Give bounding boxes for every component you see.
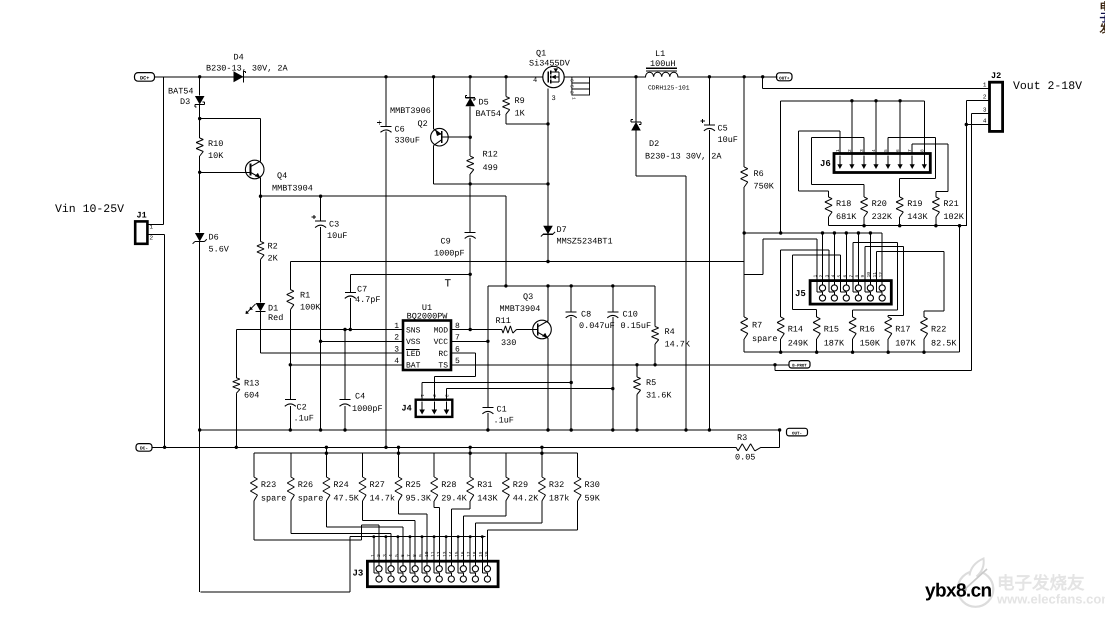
svg-text:3: 3 <box>394 346 399 355</box>
node C3-GND junction <box>319 428 322 431</box>
wire R7 to bottom bus <box>743 339 745 352</box>
node rail junction R6 <box>743 75 746 78</box>
node Q3col-VCC junction <box>546 284 549 287</box>
svg-text:CDRH125-101: CDRH125-101 <box>648 85 690 92</box>
resistor R4 14.7K <box>652 327 691 350</box>
svg-text:J2: J2 <box>991 71 1001 81</box>
wire J6 pin4 drop <box>875 101 877 156</box>
wire J6 pin6 drop <box>899 101 901 156</box>
capacitor C1 .1uF <box>482 405 514 426</box>
wire R5 to GND <box>636 395 638 431</box>
svg-text:C5: C5 <box>718 124 728 134</box>
node BUSA junction 870.4 <box>869 231 872 234</box>
wire rail to Q2 emitter <box>433 77 435 129</box>
node J6 bus junction 6 <box>898 99 901 102</box>
svg-text:17: 17 <box>466 551 472 557</box>
wire D5 to R12 <box>469 106 471 156</box>
svg-text:3: 3 <box>382 554 388 557</box>
wire J6 even pins bus <box>781 100 925 102</box>
node R6col-BUSA junction <box>743 231 746 234</box>
wire C1 column <box>487 286 489 408</box>
resistor R9 <box>503 77 526 119</box>
svg-text:R17: R17 <box>895 325 910 335</box>
svg-text:J6: J6 <box>820 159 831 169</box>
svg-text:143K: 143K <box>907 212 928 222</box>
svg-text:12: 12 <box>878 272 884 278</box>
node D2col-GND junction <box>684 428 687 431</box>
svg-text:1000pF: 1000pF <box>434 249 465 259</box>
svg-text:1K: 1K <box>515 109 526 119</box>
wire SNS to R13 <box>236 330 403 378</box>
svg-text:7: 7 <box>406 554 412 557</box>
svg-text:MOD: MOD <box>434 327 449 336</box>
resistor R21 102K <box>932 197 964 226</box>
wire Q3 emitter <box>547 338 549 430</box>
node J6 bus junction 2 <box>850 99 853 102</box>
wire J6 pin3 route <box>811 137 864 197</box>
svg-text:Q4: Q4 <box>277 171 287 181</box>
svg-text:R4: R4 <box>665 327 675 337</box>
wire J3 odd pin 15 route <box>463 501 505 561</box>
svg-text:Q1: Q1 <box>536 49 546 59</box>
node Q2 base junction <box>469 136 472 139</box>
node bottom bus junction 852.6 <box>851 351 854 354</box>
node bottom bus junction 780.7 <box>779 351 782 354</box>
svg-text:C9: C9 <box>441 237 451 247</box>
wire VIN/VOUT top rail <box>155 76 778 78</box>
svg-text:R30: R30 <box>585 480 600 490</box>
svg-text:3: 3 <box>825 275 831 278</box>
transistor Q1 Si3455DV <box>529 49 571 104</box>
svg-text:J3: J3 <box>353 569 364 579</box>
svg-text:R18: R18 <box>836 199 851 209</box>
node C6-DC- junction <box>384 446 387 449</box>
wire rail to D5 <box>469 77 471 98</box>
node VCCline junction 506 <box>504 284 507 287</box>
wire C2 to GND <box>289 406 291 430</box>
resistor R17 107K <box>885 317 917 352</box>
node bottom bus junction 924.0 <box>922 351 925 354</box>
node C4-SNS junction <box>343 328 346 331</box>
node BUSA junction 846.3 <box>845 231 848 234</box>
svg-text:spare: spare <box>752 334 778 344</box>
svg-text:3: 3 <box>552 95 556 103</box>
node VCC pin7 junction <box>486 340 489 343</box>
svg-text:D4: D4 <box>234 53 244 63</box>
wire MOD feed line to C7 <box>350 273 470 275</box>
svg-text:C3: C3 <box>329 220 339 230</box>
svg-text:107K: 107K <box>895 339 916 349</box>
svg-text:11: 11 <box>430 551 436 557</box>
svg-text:1: 1 <box>419 394 424 397</box>
svg-text:D1: D1 <box>268 304 278 314</box>
LED D1 Red <box>246 303 284 323</box>
resistor R5 31.6K <box>633 365 672 401</box>
wire J6 pin2 drop <box>851 101 853 156</box>
svg-text:C2: C2 <box>297 403 307 413</box>
svg-text:9: 9 <box>418 554 424 557</box>
svg-text:R25: R25 <box>406 480 421 490</box>
svg-text:3: 3 <box>443 394 449 397</box>
svg-text:R7: R7 <box>752 321 762 331</box>
node Q2col-Q1gate junction <box>546 182 549 185</box>
wire J1 pin1 to rail <box>147 77 163 225</box>
svg-text:100uH: 100uH <box>650 59 676 69</box>
svg-text:82.5K: 82.5K <box>931 339 957 349</box>
wire J5 top pin 882.2 <box>881 233 883 281</box>
node C10-VCC junction <box>611 284 614 287</box>
svg-text:Vout 2-18V: Vout 2-18V <box>1013 80 1082 93</box>
svg-text:OUT-: OUT- <box>792 431 802 436</box>
svg-text:47.5K: 47.5K <box>333 494 359 504</box>
wire DC- line <box>152 446 780 448</box>
transistor Q4 MMBT3904 <box>245 160 312 193</box>
wire R12 down through C9 to MOD <box>469 174 471 330</box>
flag DC+ input <box>135 73 155 82</box>
node C2-GND junction <box>289 428 292 431</box>
wire Q1 pin3 column <box>547 89 549 262</box>
svg-text:2: 2 <box>150 235 154 242</box>
svg-text:R16: R16 <box>860 325 875 335</box>
diode D3 BAT54 <box>168 87 205 108</box>
resistor R31 143K <box>467 446 499 504</box>
resistor R2 <box>257 196 279 263</box>
label Vout 2-18V <box>1013 80 1082 93</box>
J5 pin circles <box>817 281 885 302</box>
wire J3 odd pin 19 route <box>487 501 577 561</box>
svg-text:R22: R22 <box>931 325 946 335</box>
wire J2 pin2 <box>966 94 989 226</box>
diode D2 B230-13 <box>631 120 722 162</box>
svg-text:20: 20 <box>484 551 490 557</box>
svg-text:1: 1 <box>571 97 576 100</box>
svg-text:11: 11 <box>872 272 878 278</box>
svg-text:R27: R27 <box>370 480 385 490</box>
resistor R18 681K <box>825 197 857 226</box>
node rail junction C6 <box>384 75 387 78</box>
node R4-TS junction <box>653 363 656 366</box>
node rail junction J2tap <box>761 75 764 78</box>
node C4-GND junction <box>343 428 346 431</box>
wire J5 bc2 route <box>781 250 829 317</box>
wire VCC2 line left corner to R1 <box>289 262 291 290</box>
wire J3 odd pin 3 route <box>291 501 391 561</box>
wire J5 top pin 858.4 <box>857 233 859 281</box>
svg-text:4.7pF: 4.7pF <box>355 295 381 305</box>
resistor R6 750K <box>741 167 775 192</box>
svg-text:10: 10 <box>866 272 872 278</box>
svg-text:R13: R13 <box>244 379 259 389</box>
connector J2 <box>990 71 1003 131</box>
svg-text:J4: J4 <box>402 404 412 414</box>
wire J6 bus to BUSA <box>780 101 782 233</box>
wire bc1 tap line <box>744 273 763 275</box>
svg-text:0.05: 0.05 <box>735 453 755 463</box>
svg-text:1: 1 <box>813 275 819 278</box>
wire VCC to R4 <box>654 286 656 327</box>
wire J6 pin1 route <box>798 131 840 197</box>
capacitor C6 330uF <box>377 77 420 146</box>
svg-text:Red: Red <box>268 313 283 323</box>
svg-text:R12: R12 <box>483 150 498 160</box>
wire D3 node to Q4 collector <box>200 119 261 162</box>
svg-text:C8: C8 <box>581 310 591 320</box>
capacitor C10 0.15uF <box>607 286 651 331</box>
svg-text:MMSZ5234BT1: MMSZ5234BT1 <box>557 237 613 247</box>
wire to Q4 base <box>200 171 251 173</box>
wire J6 pin5 route <box>888 137 936 197</box>
svg-text:R24: R24 <box>333 480 348 490</box>
inductor L1 <box>646 49 690 92</box>
resistor R28 29.4K <box>431 453 468 503</box>
svg-text:R2: R2 <box>268 242 278 252</box>
svg-text:J1: J1 <box>137 211 147 221</box>
wire C5 to GND <box>708 130 710 430</box>
svg-text:19: 19 <box>478 551 484 557</box>
node C5-GND junction <box>708 428 711 431</box>
svg-text:R32: R32 <box>549 480 564 490</box>
svg-text:B230-13, 30V, 2A: B230-13, 30V, 2A <box>206 64 289 74</box>
wire J3 resistor line2 <box>254 452 577 454</box>
svg-text:D6: D6 <box>209 233 219 243</box>
node bus-959 junction <box>958 224 961 227</box>
svg-text:2: 2 <box>983 94 987 101</box>
wire VCC pin7 line <box>451 340 488 342</box>
connector J3 <box>353 561 499 587</box>
svg-text:SNS: SNS <box>406 327 421 336</box>
node R5-GND junction <box>635 428 638 431</box>
op-amp U1 BQ2000PW <box>394 303 460 371</box>
svg-text:R20: R20 <box>872 199 887 209</box>
capacitor C4 1000pF <box>340 330 383 415</box>
wire R13 to DC- line <box>235 393 237 447</box>
svg-text:R31: R31 <box>477 480 492 490</box>
wire J3 odd pin 9 route <box>399 501 428 561</box>
svg-text:D2: D2 <box>649 139 659 149</box>
wire BUS_A <box>744 232 882 234</box>
node rail junction R9 <box>504 75 507 78</box>
diode D5 BAT54 <box>465 96 501 120</box>
svg-text:604: 604 <box>244 391 259 401</box>
wire J3 odd pin 11 route <box>434 501 439 561</box>
svg-text:BAT54: BAT54 <box>476 109 502 119</box>
node BUSA junction 822.5 <box>821 231 824 234</box>
svg-text:150K: 150K <box>860 339 881 349</box>
resistor R24 47.5K <box>323 446 360 504</box>
wire GND bus <box>200 429 779 431</box>
node rail junction Q2 <box>432 75 435 78</box>
transistor Q3 MMBT3904 <box>500 292 552 339</box>
node C8-VCC junction <box>570 284 573 287</box>
svg-text:R15: R15 <box>824 325 839 335</box>
wire C3 to GND <box>320 227 322 430</box>
resistor R25 95.3K <box>395 446 432 504</box>
resistor R19 143K <box>896 197 928 226</box>
svg-text:95.3K: 95.3K <box>406 494 432 504</box>
resistor R32 187k <box>538 446 569 504</box>
wire VCC line corner down to 286 <box>505 196 507 286</box>
svg-text:232K: 232K <box>872 212 893 222</box>
capacitor C2 <box>285 400 314 424</box>
svg-text:0.15uF: 0.15uF <box>621 321 652 331</box>
transistor Q2 MMBT3906 <box>390 106 448 146</box>
J3 pin digits <box>370 551 490 557</box>
node DC- J1 junction <box>163 446 166 449</box>
svg-text:2: 2 <box>569 91 575 94</box>
svg-text:15: 15 <box>454 551 460 557</box>
svg-text:BAT: BAT <box>406 362 421 371</box>
wire J1 pin2 to DC- line <box>147 235 164 448</box>
svg-text:5: 5 <box>836 275 842 278</box>
wire J5 bc1 route <box>763 239 817 281</box>
node J2 pin4 junction <box>965 123 968 126</box>
svg-text:R5: R5 <box>646 378 656 388</box>
label Vin 10-25V <box>55 203 124 216</box>
node bottom bus junction 888.2 <box>887 351 890 354</box>
svg-text:发: 发 <box>1099 23 1105 36</box>
flag OUT- <box>787 428 808 436</box>
svg-text:C7: C7 <box>357 285 367 295</box>
J4 pin arrows <box>419 394 449 414</box>
resistor R1 <box>287 290 322 313</box>
wire J4 pin2 stub <box>433 376 435 399</box>
node C10-GND junction <box>611 428 614 431</box>
wire J5 top pin 834.4 <box>833 233 835 281</box>
svg-text:10K: 10K <box>208 151 224 161</box>
svg-text:.1uF: .1uF <box>294 414 314 424</box>
node J6 bus junction 4 <box>874 99 877 102</box>
node rail junction D2 <box>634 75 637 78</box>
node GND-R3 corner <box>778 428 781 431</box>
wire J5 top pin 822.5 <box>822 233 824 281</box>
diode D6 zener 5.6V <box>193 233 230 255</box>
svg-text:LED: LED <box>406 350 421 359</box>
Q1 pin boxes <box>569 77 590 100</box>
wire TS pin5 line <box>451 364 789 366</box>
resistor R13 <box>233 378 260 401</box>
wire R11 to Q3 base <box>517 329 538 331</box>
svg-text:DC-: DC- <box>140 446 148 452</box>
svg-text:T: T <box>445 279 452 291</box>
node R5-TS junction <box>635 363 638 366</box>
wire J5 top pin 846.3 <box>845 233 847 281</box>
wire B- jog <box>775 114 972 371</box>
svg-text:2: 2 <box>431 394 437 397</box>
svg-text:187K: 187K <box>824 339 845 349</box>
svg-text:BQ2000PW: BQ2000PW <box>407 312 449 322</box>
node R13-DC- junction <box>235 446 238 449</box>
diode D7 zener MMSZ5234BT1 <box>541 225 613 247</box>
svg-text:59K: 59K <box>585 494 601 504</box>
resistor R7 spare <box>741 317 778 344</box>
node bottom bus junction 816.7 <box>815 351 818 354</box>
wire J3 even-pin common line <box>350 536 485 538</box>
diode D4 <box>206 53 289 83</box>
svg-text:1: 1 <box>983 82 987 89</box>
wire R18-R21 bottom bus <box>829 225 968 227</box>
wire J3 odd pin 17 route <box>475 501 542 561</box>
node C7-SNS junction <box>349 328 352 331</box>
capacitor C9 1000pF <box>434 232 476 258</box>
svg-text:499: 499 <box>483 163 498 173</box>
svg-text:14.7k: 14.7k <box>370 494 396 504</box>
J3 pin circles <box>374 561 491 582</box>
svg-text:C1: C1 <box>497 405 507 415</box>
node R9-Q1 junction <box>546 122 549 125</box>
wire C1 to GND <box>487 413 489 430</box>
wire D1 to LED pin line <box>261 312 404 354</box>
node rail junction C5 <box>708 75 711 78</box>
svg-text:4: 4 <box>830 275 836 278</box>
node C9-MODfeed junction <box>469 273 472 276</box>
wire Q3 collector <box>547 286 549 321</box>
wire J4 pin3 line <box>447 389 613 400</box>
wire RC pin6 line <box>434 353 475 376</box>
svg-text:MMBT3906: MMBT3906 <box>390 106 431 116</box>
svg-text:10uF: 10uF <box>327 231 347 241</box>
wire C8 to GND <box>570 317 572 430</box>
svg-text:ybx8.cn: ybx8.cn <box>925 581 992 602</box>
connector J6 <box>820 154 930 173</box>
svg-text:Vin 10-25V: Vin 10-25V <box>55 203 124 216</box>
wire D2 anode to GND column <box>636 131 686 431</box>
capacitor C5 10uF <box>700 77 738 145</box>
svg-text:R6: R6 <box>754 169 764 179</box>
label T testpoint <box>445 279 452 291</box>
capacitor C3 10uF <box>312 196 348 241</box>
svg-text:R19: R19 <box>907 199 922 209</box>
wire J5 bc3 route <box>792 255 840 317</box>
node divider bus junction 935.9 <box>934 224 937 227</box>
svg-text:10uF: 10uF <box>718 135 738 145</box>
svg-text:C6: C6 <box>395 125 405 135</box>
node C3 top junction <box>319 195 322 198</box>
wire rail to D3 <box>199 77 201 96</box>
svg-text:1000pF: 1000pF <box>352 404 383 414</box>
wire J6 pin8 drop <box>923 101 925 156</box>
resistor R20 232K <box>861 197 893 226</box>
node rail junction D5 <box>469 75 472 78</box>
wire R1 down to C2 <box>289 310 291 400</box>
svg-text:R9: R9 <box>515 96 525 106</box>
svg-text:R11: R11 <box>496 316 511 326</box>
node Q1col-VCC2 junction <box>546 260 549 263</box>
wire R6 column down <box>743 187 745 274</box>
svg-text:4: 4 <box>983 118 987 125</box>
svg-text:J5: J5 <box>795 289 806 299</box>
svg-text:spare: spare <box>298 494 324 504</box>
node Q4 emitter corner <box>259 195 262 198</box>
svg-text:BAT54: BAT54 <box>168 87 194 97</box>
wire VCC line y286 <box>488 285 655 287</box>
node C1-GND junction <box>486 428 489 431</box>
svg-text:C4: C4 <box>355 392 365 402</box>
svg-text:B230-13 30V, 2A: B230-13 30V, 2A <box>645 152 722 162</box>
svg-text:MMBT3904: MMBT3904 <box>272 184 313 194</box>
svg-text:VSS: VSS <box>406 338 421 347</box>
J3 even pin wires <box>372 535 483 561</box>
wire Q4 emitter <box>260 178 262 196</box>
svg-text:TS: TS <box>438 362 448 371</box>
svg-text:102K: 102K <box>943 212 964 222</box>
wire 959 column <box>959 226 961 353</box>
svg-text:5.6V: 5.6V <box>209 245 230 255</box>
resistor R29 44.2K <box>502 453 539 503</box>
node divider bus junction 899.7 <box>898 224 901 227</box>
svg-text:14.7K: 14.7K <box>665 340 691 350</box>
svg-text:R26: R26 <box>298 480 313 490</box>
svg-text:0.047uF: 0.047uF <box>579 321 615 331</box>
